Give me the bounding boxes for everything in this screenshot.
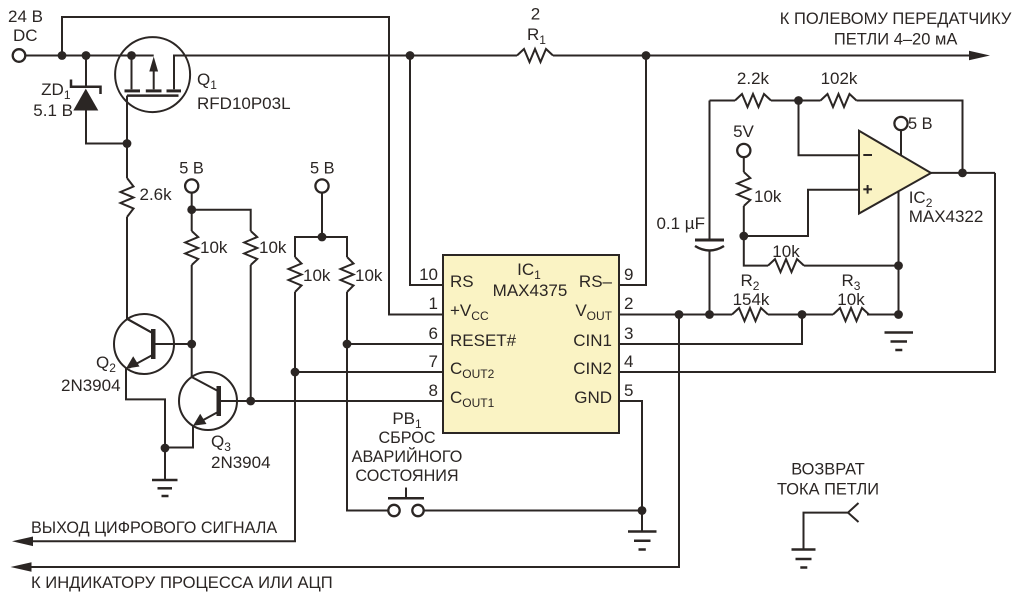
wire op-amp output (931, 172, 995, 174)
transistor Q1 P-MOSFET (115, 37, 190, 143)
svg-text:7: 7 (429, 352, 438, 371)
wire 5V branch to pullups C/D (295, 237, 347, 257)
node junction dot (406, 51, 415, 60)
node junction dot (642, 51, 651, 60)
svg-text:5 В: 5 В (908, 115, 933, 133)
svg-text:CIN1: CIN1 (573, 331, 612, 350)
resistor 102k (821, 94, 857, 107)
resistor 10k pullup D (341, 257, 354, 344)
wire main drain rail with R1 (190, 55, 517, 57)
resistor 2.2k (710, 100, 736, 102)
wire rail to pin9 RS- (619, 56, 646, 286)
node junction dot zener top (82, 51, 91, 60)
svg-text:RS–: RS– (579, 272, 613, 291)
node GND/pushbutton junction (638, 506, 647, 515)
svg-text:СОСТОЯНИЯ: СОСТОЯНИЯ (355, 467, 458, 485)
svg-text:10: 10 (419, 265, 438, 284)
transistor Q3 2N3904 (165, 344, 251, 448)
svg-text:5: 5 (624, 381, 633, 400)
svg-text:ВОЗВРАТ: ВОЗВРАТ (791, 461, 864, 479)
svg-text:2.2k: 2.2k (737, 69, 770, 88)
node 24V input terminal (13, 49, 26, 62)
node Vout/indicator junction (675, 310, 684, 319)
svg-text:8: 8 (429, 381, 438, 400)
wire loop transmitter arrow (969, 51, 990, 61)
transistor Q2 2N3904 (114, 314, 192, 448)
op-amp U2 MAX4322 (859, 131, 931, 214)
svg-text:MAX4375: MAX4375 (493, 281, 568, 300)
svg-text:PB1: PB1 (392, 409, 422, 431)
svg-text:2: 2 (624, 294, 633, 313)
svg-text:10k: 10k (355, 266, 383, 285)
node 5V terminal op-amp (894, 117, 907, 130)
wire 5V branch to pullups A/B (192, 210, 251, 231)
svg-text:2: 2 (531, 5, 540, 24)
svg-text:5.1 В: 5.1 В (33, 101, 73, 120)
svg-text:10k: 10k (200, 238, 228, 257)
resistor 10k pullup B (244, 231, 257, 401)
resistor 10k pullup C (289, 257, 302, 372)
resistor 10k reference lower (744, 236, 768, 266)
wire rail to loop arrow (553, 55, 970, 57)
wire digital output (32, 372, 295, 541)
svg-text:RS: RS (450, 272, 474, 291)
wire R3 to ground (867, 314, 899, 316)
node Vout/capacitor junction (705, 310, 714, 319)
svg-text:3: 3 (624, 324, 633, 343)
resistor 10k pullup A (185, 210, 198, 344)
svg-text:154k: 154k (733, 290, 770, 309)
wire R2 to R3 (768, 314, 833, 316)
node Cout1/Q3 base junction (246, 397, 255, 406)
svg-text:102k: 102k (821, 69, 858, 88)
IC U1 MAX4375 (443, 255, 619, 433)
wire pin7 Cout2 (295, 371, 443, 373)
svg-text:5V: 5V (733, 122, 754, 141)
svg-text:АВАРИЙНОГО: АВАРИЙНОГО (352, 447, 463, 466)
svg-text:Q1: Q1 (197, 70, 217, 92)
svg-text:10k: 10k (303, 266, 331, 285)
resistor 2.6k (121, 144, 153, 334)
svg-text:MAX4322: MAX4322 (909, 207, 984, 226)
node junction dot Q1 source (127, 51, 136, 60)
svg-text:ВЫХОД ЦИФРОВОГО СИГНАЛА: ВЫХОД ЦИФРОВОГО СИГНАЛА (31, 519, 277, 537)
svg-text:2.6k: 2.6k (140, 185, 173, 204)
svg-text:5 В: 5 В (310, 160, 335, 178)
capacitor 0.1uF (695, 101, 724, 315)
svg-text:RESET#: RESET# (450, 331, 517, 350)
svg-text:К ПОЛЕВОМУ ПЕРЕДАТЧИКУ: К ПОЛЕВОМУ ПЕРЕДАТЧИКУ (780, 10, 1012, 28)
resistor R2 154k (732, 308, 768, 321)
svg-text:Q3: Q3 (211, 432, 231, 454)
node loop current return chevron (792, 503, 859, 568)
resistor 10k reference upper (737, 172, 750, 206)
svg-text:GND: GND (574, 388, 612, 407)
resistor R3 10k (833, 308, 869, 321)
svg-text:К ИНДИКАТОРУ ПРОЦЕССА ИЛИ АЦП: К ИНДИКАТОРУ ПРОЦЕССА ИЛИ АЦП (31, 573, 333, 592)
node R2/R3 divider junction (798, 310, 807, 319)
node output/feedback junction (958, 169, 967, 178)
svg-text:ZD1: ZD1 (41, 80, 71, 102)
svg-text:RFD10P03L: RFD10P03L (197, 94, 291, 113)
svg-text:2N3904: 2N3904 (211, 453, 271, 472)
wire 24V rail to MOSFET source (25, 55, 153, 57)
wire inverting input (799, 101, 859, 156)
wire pin6 RESET# (347, 343, 443, 345)
wire CIN2 to op-amp output (619, 173, 995, 372)
zener diode ZD1 (71, 56, 127, 144)
svg-text:R1: R1 (527, 25, 546, 47)
wire top rail to +Vcc pin1 (62, 17, 443, 315)
svg-text:9: 9 (624, 265, 633, 284)
svg-text:10k: 10k (772, 242, 800, 261)
node RESET#/pullup junction (343, 340, 352, 349)
wire CIN1 to R2/R3 node (619, 315, 802, 345)
wire pin8 Cout1 from Q3 base (221, 400, 443, 402)
svg-text:10k: 10k (259, 238, 287, 257)
svg-text:CIN2: CIN2 (573, 359, 612, 378)
wire rail to pin10 RS (410, 56, 443, 286)
node junction dot rail/top-rail (58, 51, 67, 60)
svg-text:ПЕТЛИ 4–20 мА: ПЕТЛИ 4–20 мА (834, 31, 958, 49)
svg-text:ТОКА ПЕТЛИ: ТОКА ПЕТЛИ (777, 481, 879, 499)
pushbutton PB1 (347, 344, 642, 516)
svg-text:1: 1 (429, 294, 438, 313)
node Q2 base / Q3 collector junction (187, 340, 196, 349)
wire pin5 GND down (619, 401, 642, 531)
ground op-amp / R3 (885, 333, 914, 351)
svg-text:2N3904: 2N3904 (61, 376, 121, 395)
resistor R1 (517, 49, 553, 62)
wire to process indicator / ADC (31, 315, 679, 568)
node gate junction dot (123, 139, 132, 148)
wire non-inverting input (744, 190, 858, 236)
svg-text:СБРОС: СБРОС (378, 429, 435, 447)
svg-text:6: 6 (429, 324, 438, 343)
wire 102k feedback to output (857, 101, 963, 173)
svg-text:0.1 µF: 0.1 µF (656, 214, 705, 233)
svg-text:5 В: 5 В (179, 160, 204, 178)
svg-text:4: 4 (624, 352, 633, 371)
svg-text:Q2: Q2 (96, 353, 116, 375)
svg-text:DC: DC (13, 26, 38, 45)
node 2.2k/102k junction (794, 96, 803, 105)
svg-text:10k: 10k (754, 187, 782, 206)
node reference divider ground junction (894, 261, 903, 270)
svg-text:24 В: 24 В (8, 7, 43, 26)
ground IC1 (628, 532, 657, 550)
svg-text:10k: 10k (837, 290, 865, 309)
ground Q2/Q3 emitters (161, 444, 170, 453)
node R3/ground junction (894, 310, 903, 319)
wire op-amp ground leg (898, 191, 900, 315)
node Cout2/pullup junction (291, 368, 300, 377)
wire Vout pin2 line (619, 314, 732, 316)
